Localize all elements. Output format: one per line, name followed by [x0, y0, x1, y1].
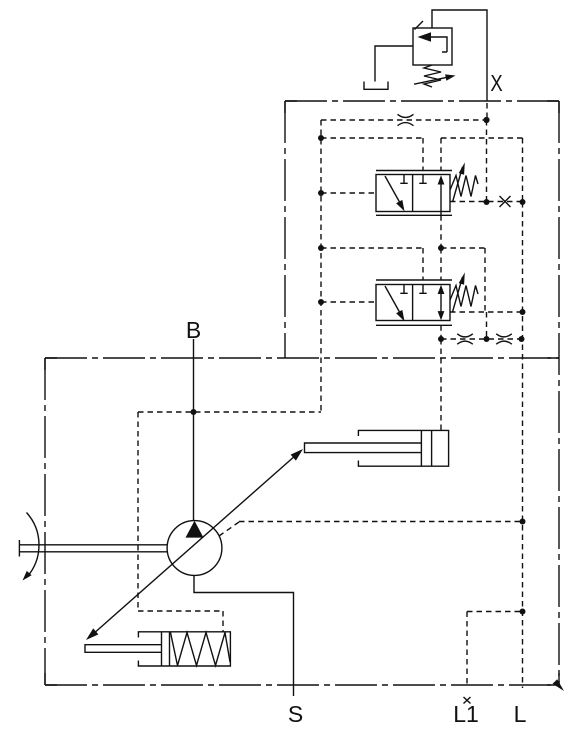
stroking cylinder C1 rod	[305, 443, 422, 453]
bias cylinder C2 piston	[162, 632, 170, 666]
swashplate stroke arrow diagonal	[86, 449, 303, 640]
wire LS to pump y412	[138, 411, 321, 413]
tank symbol	[364, 82, 388, 90]
valve V1 body	[376, 175, 450, 212]
valve V2 spring	[450, 286, 478, 307]
wire drain vertical x522	[522, 202, 524, 688]
valve V1 spring adjust arrow	[453, 162, 465, 202]
pump suction line to S	[194, 575, 294, 696]
enclosure right border	[558, 101, 560, 685]
valve V1 proportional lines	[376, 171, 452, 216]
stroking cylinder C1 piston	[421, 430, 431, 466]
svg-text:L1: L1	[453, 701, 479, 727]
orifice FB2	[457, 334, 473, 344]
valve V1 blocked port T right	[419, 175, 426, 184]
orifice FB3	[496, 334, 512, 344]
svg-text:B: B	[186, 317, 201, 343]
wire valve1 bottom to row y248	[321, 215, 485, 312]
valve V2 spring adjust arrow	[453, 272, 465, 312]
enclosure pump housing border	[45, 358, 559, 685]
valve V1 drain arrow	[385, 176, 405, 211]
wire LS vertical x321	[320, 120, 322, 412]
port B line	[193, 339, 195, 521]
plug X1	[500, 196, 511, 207]
wire x486 to orifice row	[486, 312, 488, 339]
relief valve internal arrow	[418, 32, 448, 52]
wire X vertical x486	[486, 120, 488, 202]
relief valve DB pipe to X port (dashed below border)	[486, 103, 488, 118]
svg-text:S: S	[288, 701, 303, 727]
wire orifice row y339	[441, 338, 522, 340]
bias cylinder C2 barrel	[138, 632, 230, 666]
wire valve2 spring drain y312	[450, 311, 523, 313]
wire L1 down x467	[466, 612, 468, 686]
relief valve spring	[424, 65, 441, 87]
valve V1 spring	[450, 176, 478, 197]
valve V2 blocked port T left	[400, 285, 407, 294]
valve V2 drain arrow	[385, 286, 405, 321]
wire valve1 top ports y138	[321, 138, 523, 202]
orifice FB1	[398, 114, 414, 125]
svg-text:X: X	[490, 70, 502, 96]
valve V2 blocked port T right	[419, 285, 426, 294]
wire valve2 left pilot	[321, 301, 376, 303]
stroking cylinder C1 barrel	[358, 430, 448, 466]
wire to bias cylinder	[138, 610, 223, 612]
valve V2 flow arrow double	[438, 285, 445, 321]
valve V2 proportional lines	[376, 280, 452, 325]
plug x at L1	[464, 697, 471, 704]
shaft rotation arrow	[23, 513, 40, 581]
svg-text:L: L	[514, 701, 527, 727]
relief valve drain line to tank	[375, 46, 413, 82]
pump P1 circle	[167, 521, 222, 576]
wire L1 branch y609	[467, 611, 523, 613]
bias cylinder C2 rod	[85, 645, 162, 653]
pump shaft	[19, 540, 167, 557]
wire pump case drain	[219, 522, 239, 536]
pump P1 outlet triangle	[186, 521, 204, 538]
wire x441 to stroking cylinder	[440, 339, 442, 430]
relief valve DB pipe top	[432, 10, 487, 101]
bias cylinder C2 spring	[171, 633, 231, 666]
valve V1 flow arrow up	[438, 175, 445, 215]
relief valve pilot tick	[415, 21, 424, 30]
wire LS down x138	[137, 412, 139, 611]
enclosure corner caps	[45, 101, 559, 685]
wire valve2 bottom x441 to orifice row	[440, 325, 442, 339]
wire orifice line y120	[321, 119, 487, 121]
relief valve spring adjust arrow	[414, 74, 456, 84]
wire valve1 spring drain y202	[450, 201, 523, 203]
enclosure top block (valve block) dash-dot border	[285, 101, 559, 358]
valve V2 body	[376, 285, 450, 321]
wire valve1 left pilot	[321, 192, 376, 194]
valve V1 blocked port T left	[400, 175, 407, 184]
relief valve U1 body	[413, 28, 452, 65]
corner arrow bottom-right	[553, 679, 564, 691]
